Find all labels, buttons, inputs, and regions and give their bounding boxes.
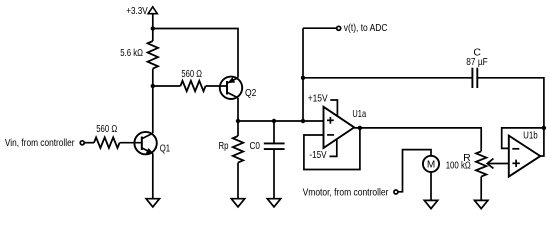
wire resistor to Q1 base	[120, 142, 142, 144]
svg-text:87 µF: 87 µF	[466, 56, 487, 68]
wire Rp to ground	[237, 163, 239, 199]
svg-text:+15V: +15V	[308, 93, 328, 105]
svg-text:Rp: Rp	[219, 140, 229, 152]
svg-text:Q2: Q2	[245, 87, 257, 99]
svg-text:v(t), to ADC: v(t), to ADC	[344, 22, 388, 34]
node A junction	[151, 26, 155, 30]
power symbol +3.3V	[126, 5, 157, 17]
wire C0 to ground	[273, 149, 275, 199]
resistor 560 Ohm (Q1 base)	[94, 123, 120, 148]
wire +3.3V to node A	[152, 14, 154, 41]
wire node B to resistor	[153, 85, 181, 87]
svg-text:M: M	[427, 159, 435, 170]
transistor Q1	[134, 132, 170, 155]
motor M	[423, 156, 439, 172]
op-amp U1a	[324, 107, 367, 148]
node B junction	[151, 84, 155, 88]
wire node D to C0	[273, 121, 275, 143]
wire U1a feedback loop (output to - input)	[304, 128, 360, 170]
wire Q1 collector to node B	[152, 86, 154, 133]
ground (Rp)	[231, 199, 244, 207]
wire U1a output to potentiometer R	[354, 128, 481, 151]
wire capacitor C to U1b output node	[477, 78, 544, 128]
ground (C0)	[267, 199, 280, 207]
potentiometer R 100 kOhm	[446, 151, 509, 176]
capacitor C 87 uF	[466, 46, 487, 88]
svg-text:560 Ω: 560 Ω	[96, 123, 117, 135]
terminal v(t) to ADC	[337, 22, 388, 34]
wire Q2 collector to node C	[237, 98, 239, 121]
svg-text:Q1: Q1	[160, 143, 171, 155]
node G junction (U1a output)	[358, 126, 362, 130]
node C junction	[236, 119, 240, 123]
U1a +15V supply pin	[308, 93, 338, 117]
ground (R)	[475, 200, 488, 208]
svg-text:U1a: U1a	[352, 108, 366, 120]
wire resistor to Q2 base	[206, 85, 227, 87]
svg-text:Vin, from controller: Vin, from controller	[5, 137, 75, 149]
svg-text:U1b: U1b	[523, 130, 538, 142]
U1a -15V supply pin	[309, 139, 336, 161]
svg-text:Vmotor, from controller: Vmotor, from controller	[303, 187, 389, 199]
wire Vmotor terminal to motor	[398, 150, 431, 192]
svg-text:5.6 kΩ: 5.6 kΩ	[120, 47, 143, 59]
resistor 560 Ohm (Q2 base)	[180, 68, 205, 91]
svg-text:560 Ω: 560 Ω	[181, 68, 202, 80]
wire U1b output to node H	[540, 128, 544, 156]
wire to v(t) terminal	[303, 27, 337, 29]
capacitor C0	[250, 140, 285, 152]
transistor Q2	[220, 77, 257, 100]
wire U1b feedback loop (output to - input)	[502, 128, 544, 148]
wire 5.6k to node B	[152, 69, 154, 86]
wire node C to Rp	[237, 121, 239, 136]
wire node A to Q2 emitter rail	[153, 29, 238, 78]
svg-text:+3.3V: +3.3V	[126, 5, 147, 17]
terminal Vmotor	[303, 187, 398, 199]
node E junction	[301, 119, 305, 123]
node D junction	[272, 119, 276, 123]
resistor 5.6 kOhm	[120, 41, 158, 69]
wire Vin terminal to resistor	[84, 142, 94, 144]
op-amp U1b	[509, 130, 541, 177]
wire node E up to v(t) branch	[302, 28, 304, 121]
resistor Rp	[219, 136, 244, 163]
svg-text:-15V: -15V	[309, 149, 326, 161]
node F junction	[301, 76, 305, 80]
svg-text:100 kΩ: 100 kΩ	[446, 160, 471, 172]
wire node C rail to U1a + input	[238, 120, 324, 122]
svg-text:C0: C0	[250, 140, 261, 152]
node H junction (U1b output feedback)	[542, 126, 546, 130]
wire motor to ground	[430, 172, 432, 201]
wire R to ground	[480, 177, 482, 201]
wire node F to capacitor C	[303, 77, 472, 79]
ground (motor)	[424, 200, 437, 208]
ground (Q1 emitter)	[146, 199, 159, 207]
terminal Vin	[5, 137, 84, 149]
wire Q1 emitter to ground	[152, 153, 154, 198]
